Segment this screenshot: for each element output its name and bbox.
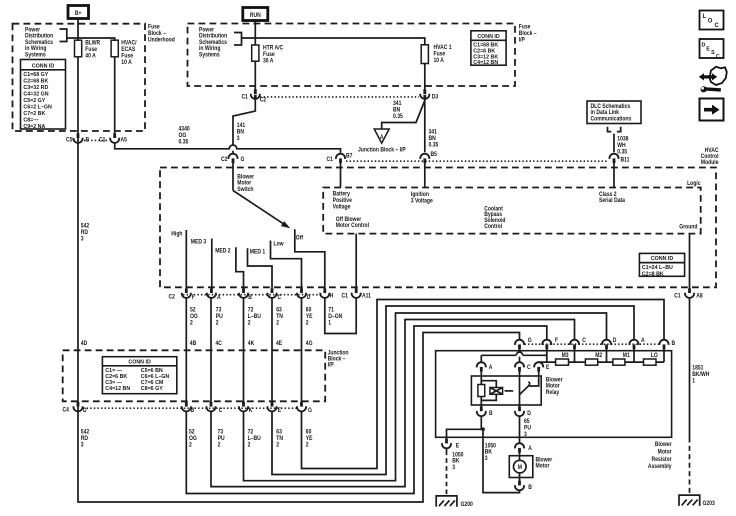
value label 71 D-GN 1 [328, 307, 342, 327]
label HVAC control module [701, 148, 719, 167]
pin labels resistor assembly G F C D A B [528, 337, 675, 347]
connector pin E junction block (cup) [267, 402, 276, 412]
value label 60 YE 2 (upper) [306, 307, 313, 327]
svg-text:4K: 4K [248, 340, 255, 347]
svg-text:C4=12 BN: C4=12 BN [105, 386, 130, 392]
svg-text:C2: C2 [221, 156, 227, 163]
value label 4340 OG 0.35 [179, 126, 190, 146]
svg-text:A8: A8 [696, 293, 702, 300]
resistor M3 [556, 359, 569, 365]
switch position label High [171, 231, 183, 238]
svg-text:C5: C5 [66, 137, 72, 144]
label blower motor relay [546, 377, 563, 396]
conn id table text (I/P) [473, 34, 500, 66]
power node B+ box [68, 6, 89, 19]
value label 52 OG 2 (upper) [190, 307, 198, 327]
switch position label Off [296, 235, 303, 242]
conn id table text (module) [642, 256, 674, 277]
svg-text:Blower: Blower [655, 442, 672, 449]
svg-text:C: C [278, 295, 282, 302]
connector D3 (cup) [420, 89, 429, 99]
switch position label MED 1 [250, 249, 265, 256]
svg-text:CONN ID: CONN ID [32, 63, 55, 69]
connector line B7-B5-B11 (dotted) [346, 160, 608, 162]
svg-text:C1: C1 [327, 156, 333, 163]
icon forward arrow box [700, 99, 724, 121]
svg-text:C4: C4 [63, 407, 70, 414]
connector pin C relay (dome) [515, 362, 524, 371]
svg-text:G: G [528, 337, 532, 344]
svg-text:C1=68 GY: C1=68 GY [23, 72, 48, 78]
resistor M2 [585, 359, 597, 365]
svg-text:Systems: Systems [199, 52, 220, 59]
DLC schematics reference box [587, 101, 641, 124]
svg-text:B: B [191, 407, 195, 414]
junction block pin labels 4D 4B 4C 4K 4E 4G [81, 340, 313, 347]
conn id table text (underhood) [23, 63, 54, 130]
svg-text:A11: A11 [362, 293, 371, 300]
svg-text:E: E [456, 443, 460, 450]
value label 63 TN 2 (upper) [276, 307, 283, 327]
wire 71 D-GN: H to A11 [325, 234, 356, 334]
connector C5-B (cup) [73, 133, 82, 143]
svg-text:A: A [217, 295, 221, 302]
conn id table (junction block) [102, 357, 176, 394]
svg-text:0.35: 0.35 [429, 142, 439, 149]
wire feed HVAC1 fuse [242, 38, 425, 91]
svg-text:I/P: I/P [519, 37, 525, 44]
svg-text:Assembly: Assembly [648, 464, 672, 471]
connector C2-F (cup) [182, 288, 191, 298]
svg-text:M2: M2 [595, 352, 602, 359]
wire bracket feed underhood fuses [67, 38, 115, 135]
pin labels C5 B C1 A5 [66, 137, 127, 144]
value label 73 PU 2 (upper) [216, 307, 223, 327]
svg-text:D: D [83, 407, 87, 414]
pin label B11 [621, 157, 630, 164]
svg-text:2: 2 [306, 442, 309, 449]
label junction block I/P [328, 350, 349, 369]
switch position label MED 2 [215, 248, 230, 255]
svg-text:C8=6 GY: C8=6 GY [141, 386, 163, 392]
svg-text:RUN: RUN [250, 13, 261, 20]
conn id table (fuse block I/P) [471, 31, 506, 65]
label junction block ref [358, 147, 406, 154]
wire 1050 BK: relay B to E connector [447, 429, 482, 450]
pin label D3 [432, 94, 438, 101]
svg-text:4B: 4B [190, 340, 196, 347]
icon LOC box [700, 11, 724, 30]
label blower motor switch [237, 174, 254, 193]
svg-text:C9=2 NA: C9=2 NA [23, 124, 45, 130]
svg-text:C2=68 BK: C2=68 BK [23, 79, 48, 85]
connector pin C resistor assembly (dome) [570, 340, 579, 349]
svg-text:30 A: 30 A [263, 58, 273, 65]
connector B5 (dome) [420, 154, 429, 163]
svg-text:Serial Data: Serial Data [599, 198, 626, 205]
connector C1-A5 (cup) [110, 133, 119, 143]
value labels M3 M2 M1 LO [562, 352, 659, 359]
fuse HVAC 1 10A [421, 45, 428, 64]
pin labels C1 A8 [674, 293, 702, 300]
svg-text:H: H [330, 293, 334, 300]
blower motor box [509, 456, 533, 478]
svg-text:B: B [248, 295, 252, 302]
svg-text:CONN ID: CONN ID [651, 256, 674, 262]
svg-text:3: 3 [524, 432, 527, 439]
connector C1-B7 (dome) [336, 154, 345, 163]
svg-text:40 A: 40 A [85, 53, 95, 60]
resistor chain wire [529, 348, 664, 386]
pin label A blower motor [528, 446, 532, 453]
svg-text:C: C [582, 337, 586, 344]
svg-text:10 A: 10 A [121, 60, 131, 67]
connector pin C junction block (cup) [206, 402, 215, 412]
pin labels relay B D [489, 410, 531, 417]
connector pin E inline 1050 BK (cup) [442, 439, 451, 449]
svg-text:C4=32 GN: C4=32 GN [23, 92, 48, 98]
fuse block I/P (dashed box) [188, 24, 516, 87]
svg-text:MED 1: MED 1 [250, 249, 265, 256]
svg-text:3: 3 [485, 456, 488, 463]
value label 72 L-BU 2 (lower) [248, 429, 261, 449]
blower motor relay box [471, 376, 541, 405]
svg-text:B+: B+ [75, 11, 82, 18]
svg-text:4D: 4D [81, 340, 87, 347]
junction block ref triangle A [374, 129, 389, 143]
pin labels C1 C2 [242, 94, 267, 104]
pin labels C2 G [221, 156, 245, 163]
svg-text:Switch: Switch [237, 187, 254, 194]
connector pin B switch (cup) [239, 288, 248, 298]
connector pin E relay (dome) [534, 362, 543, 371]
value label 52 OG 2 (lower) [189, 429, 197, 449]
ref bracket (underhood power distribution) [60, 29, 67, 42]
label battery positive voltage [333, 191, 352, 210]
svg-text:S: S [711, 50, 715, 56]
svg-text:D: D [307, 295, 311, 302]
svg-text:Low: Low [274, 241, 285, 248]
wire 341 BN branch to junction block ref triangle [382, 101, 425, 130]
switch position wire Low to pin D [271, 241, 665, 469]
svg-text:0.35: 0.35 [179, 139, 189, 146]
value label HVAC 1 fuse [434, 45, 452, 65]
svg-text:B: B [672, 341, 676, 348]
svg-text:3 Voltage: 3 Voltage [411, 198, 433, 205]
value label 60 YE 2 (lower) [306, 429, 313, 449]
svg-text:B: B [86, 137, 90, 144]
value label HVAC/ECAS fuse [121, 40, 137, 66]
svg-text:2: 2 [216, 320, 219, 327]
icon diagnostic (arrow, connector, wrench) [699, 67, 727, 93]
relay coil element [478, 385, 485, 397]
ignition node RUN box [243, 8, 268, 21]
value label 65 PU 3 [524, 419, 531, 439]
label RUN [250, 13, 261, 20]
svg-text:Underhood: Underhood [148, 37, 175, 44]
blower motor resistor assembly box [436, 351, 672, 438]
svg-text:2: 2 [189, 442, 192, 449]
label off blower motor control [336, 216, 370, 229]
connector C1-C2 (cup) [251, 89, 260, 99]
svg-text:C2: C2 [260, 97, 266, 104]
value label 1050 BK 3 (left) [452, 452, 463, 471]
value label 542 RD 3 (lower) [81, 429, 89, 449]
off-page bracket under DLC box [608, 127, 621, 132]
svg-text:3: 3 [81, 442, 84, 449]
label ignition 3 voltage [411, 192, 433, 205]
connector line switch row C2 (dotted) [183, 294, 320, 296]
svg-text:Relay: Relay [546, 390, 560, 397]
svg-text:D: D [702, 43, 706, 49]
connector pin A relay (dome) [477, 362, 486, 371]
svg-text:3: 3 [81, 236, 84, 243]
svg-text:Communications: Communications [591, 116, 632, 123]
pin label B5 [431, 152, 437, 159]
connector pin D resistor assembly (dome) [602, 340, 611, 349]
wire 341 BN: D3 to B5 [424, 98, 426, 187]
svg-text:Logic: Logic [687, 180, 700, 187]
pin labels switch row C2 F A B C D H / C1 A11 [169, 293, 371, 301]
svg-text:MED 2: MED 2 [215, 248, 230, 255]
svg-text:4G: 4G [306, 340, 313, 347]
ref bracket (I/P power distribution) [234, 33, 242, 46]
switch position wire MED 1 to pin C [248, 248, 635, 474]
svg-text:2: 2 [218, 442, 221, 449]
svg-text:C2=8 BK: C2=8 BK [642, 272, 664, 278]
wire 1050 BK dashed to G200 [446, 451, 448, 495]
wire 4340 OG: A5 to B7 with hop over 141 BN [115, 143, 341, 188]
svg-text:Systems: Systems [25, 52, 46, 59]
pin label B blower motor [528, 484, 532, 491]
HVAC control module (dashed box) [160, 168, 716, 288]
switch position wire Off to pin H [295, 229, 325, 290]
svg-text:2: 2 [248, 320, 251, 327]
wire 542 RD main feed: B+ to junction block to resistor assembly pin G [78, 19, 520, 503]
connector line resistor assembly (dotted) [525, 343, 660, 345]
svg-text:G200: G200 [461, 501, 473, 508]
svg-text:3: 3 [452, 464, 455, 471]
note power distribution (I/P) [199, 27, 228, 59]
connector B11 (dome) [609, 154, 618, 163]
value label BLWR fuse [85, 40, 100, 60]
svg-text:1: 1 [692, 378, 695, 385]
value label 63 TN 2 (lower) [276, 429, 283, 449]
svg-text:2: 2 [276, 320, 279, 327]
svg-text:M1: M1 [623, 353, 630, 360]
svg-text:Motor: Motor [658, 449, 673, 456]
svg-text:O: O [708, 19, 713, 25]
resistor LO [644, 359, 657, 365]
svg-text:F: F [555, 337, 559, 344]
ground G200 [436, 496, 457, 507]
svg-text:Ground: Ground [679, 224, 698, 231]
connector pin A blower motor (dome) [515, 443, 524, 452]
svg-text:Motor: Motor [536, 463, 551, 470]
svg-text:A5: A5 [121, 137, 127, 144]
value label 341 BN 0.35 (left) [393, 101, 403, 121]
svg-text:B5: B5 [431, 152, 437, 159]
label ground G200 [461, 501, 473, 508]
wire ground output to A8 [689, 234, 691, 438]
wire RUN feed to HTR fuse [254, 21, 256, 92]
conn id table text (junction block) [105, 360, 169, 392]
value label 1050 BK 3 (right) [485, 443, 496, 462]
connector line C5-A5 (dotted) [84, 139, 109, 141]
svg-text:MED 3: MED 3 [191, 239, 206, 246]
svg-text:2: 2 [248, 442, 251, 449]
svg-text:G: G [241, 156, 245, 163]
svg-text:Motor Control: Motor Control [336, 223, 370, 230]
label ground [679, 224, 698, 231]
svg-text:C8=—: C8=— [23, 118, 39, 124]
relay contact arm [520, 382, 530, 395]
connector pin B relay (cup) [477, 407, 486, 417]
fuse BLWR 40A [75, 40, 82, 57]
svg-text:C1=24 L–BU: C1=24 L–BU [642, 265, 673, 271]
fuse block underhood (dashed box) [13, 24, 146, 131]
svg-text:C: C [219, 407, 223, 414]
svg-text:Junction Block – I/P: Junction Block – I/P [358, 147, 406, 154]
value label 72 L-BU 2 (upper) [248, 307, 261, 327]
conn id table (HVAC control module) [639, 253, 684, 276]
svg-text:CONN ID: CONN ID [128, 360, 151, 366]
svg-text:A: A [380, 134, 384, 141]
label triangle A [380, 134, 384, 141]
ground G203 [679, 495, 700, 506]
relay suppression element (box with X) [490, 388, 503, 395]
svg-text:2: 2 [276, 442, 279, 449]
svg-text:C1: C1 [242, 94, 248, 101]
svg-text:C4=12 BN: C4=12 BN [473, 60, 498, 66]
blower motor symbol M [514, 460, 527, 473]
label ground G203 [703, 501, 715, 508]
junction block bottom pin labels C4 D B C K E G [63, 407, 313, 414]
value label 341 BN 0.35 (right) [429, 129, 439, 149]
connector pin F resistor assembly (dome) [542, 340, 551, 349]
svg-text:2: 2 [190, 320, 193, 327]
value label 542 RD 3 (upper) [81, 223, 89, 243]
wire assembly pin G to relay pin C to motor M and back to ground node [481, 348, 519, 493]
note power distribution (underhood) [25, 27, 54, 59]
label B+ [75, 11, 82, 18]
svg-text:C5=2 GY: C5=2 GY [23, 98, 45, 104]
label coolant bypass solenoid control [484, 206, 506, 230]
connector pin B blower motor (cup) [515, 481, 524, 491]
svg-text:C2: C2 [169, 294, 175, 301]
blower motor switch arm with arrow [233, 191, 290, 229]
switch position label MED 3 [191, 239, 206, 246]
fuse HVAC/ECAS 10A [111, 40, 118, 57]
value label 1851 BK/WH 1 [692, 365, 709, 384]
value label 73 PU 2 (lower) [218, 429, 225, 449]
switch position label Low [274, 241, 285, 248]
svg-text:4C: 4C [216, 340, 222, 347]
relay coil parallel element branch [481, 381, 496, 401]
switch position wire High to pin F [186, 230, 547, 494]
svg-text:A: A [528, 446, 532, 453]
icon DESC box [700, 39, 724, 60]
connector pin K junction block (cup) [239, 402, 248, 412]
connector line C2-D3 (dotted) [260, 96, 419, 98]
label logic [687, 180, 700, 187]
junction block I/P (dashed box) [63, 350, 326, 401]
svg-text:A: A [489, 364, 493, 371]
svg-text:M: M [518, 465, 522, 472]
pin labels relay A C E [489, 364, 550, 371]
label class 2 serial data [599, 191, 626, 204]
connector C1-A11 (cup) [352, 288, 361, 298]
label fuse block I/P [519, 24, 537, 44]
svg-text:0.35: 0.35 [617, 149, 627, 156]
connector pin G junction block (cup) [297, 402, 306, 412]
connector pin G resistor assembly (dome) [515, 340, 524, 349]
svg-text:C1: C1 [342, 293, 348, 300]
svg-text:B: B [528, 484, 532, 491]
svg-text:A: A [641, 337, 645, 344]
svg-text:I/P: I/P [328, 362, 334, 369]
svg-text:LO: LO [651, 353, 658, 360]
svg-text:D3: D3 [432, 94, 438, 101]
svg-text:E: E [546, 364, 550, 371]
svg-text:B: B [489, 410, 493, 417]
svg-text:B7: B7 [346, 153, 352, 160]
connector pin B junction block (cup) [182, 402, 191, 412]
fuse HTR A/C 30A [252, 45, 259, 61]
svg-text:1: 1 [328, 320, 331, 327]
connector pin B resistor assembly (dome) [659, 340, 668, 349]
svg-text:C: C [527, 364, 531, 371]
relay contact dash link [505, 390, 514, 392]
svg-text:C1: C1 [99, 137, 105, 144]
connector pin A switch (cup) [207, 288, 216, 298]
value label 1038 WH 0.35 [617, 136, 628, 156]
value label HTR A/C fuse [263, 45, 283, 65]
svg-text:Off: Off [296, 235, 303, 242]
svg-text:Voltage: Voltage [333, 204, 351, 211]
connector line junction block bottom (dotted) [83, 407, 297, 409]
svg-text:C1: C1 [674, 293, 680, 300]
svg-text:C3=32 RD: C3=32 RD [23, 85, 48, 91]
pin label E inline connector [456, 443, 460, 450]
svg-text:M3: M3 [562, 353, 569, 360]
wire 1038 WH: DLC to B11 [613, 134, 615, 188]
svg-text:Resistor: Resistor [651, 456, 672, 463]
connector pin D switch (cup) [297, 288, 306, 298]
svg-text:G: G [308, 407, 312, 414]
svg-text:C6=2 L–GN: C6=2 L–GN [23, 105, 52, 111]
svg-text:E: E [706, 46, 710, 52]
conn id table (fuse block underhood) [21, 60, 66, 130]
svg-text:4E: 4E [276, 340, 282, 347]
svg-text:C: C [716, 54, 720, 60]
wire 1851 BK/WH dashed to G203 [689, 438, 691, 494]
label DLC schematics [591, 103, 632, 122]
svg-text:D: D [613, 337, 617, 344]
svg-text:L: L [703, 14, 707, 20]
label blower motor [536, 457, 553, 470]
connector C2-G (dome) [228, 154, 237, 163]
svg-text:2: 2 [306, 320, 309, 327]
relay coil wire A side with hop [481, 352, 547, 409]
svg-text:D: D [527, 410, 531, 417]
svg-text:CONN ID: CONN ID [477, 34, 500, 40]
connector pin H switch (cup) [320, 288, 329, 298]
connector C1-A8 (cup) [685, 288, 694, 298]
pin labels C1 B7 [327, 153, 353, 163]
svg-text:Control: Control [484, 224, 502, 231]
svg-text:G203: G203 [703, 501, 715, 508]
